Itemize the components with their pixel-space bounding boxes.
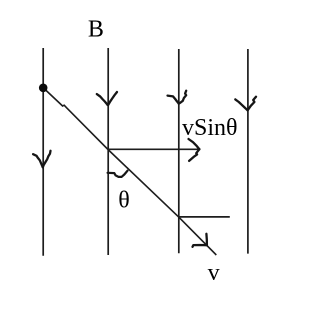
svg-text:θ: θ	[118, 188, 130, 214]
svg-text:v: v	[208, 260, 220, 286]
svg-text:vSinθ: vSinθ	[182, 115, 238, 141]
svg-text:B: B	[88, 17, 104, 43]
